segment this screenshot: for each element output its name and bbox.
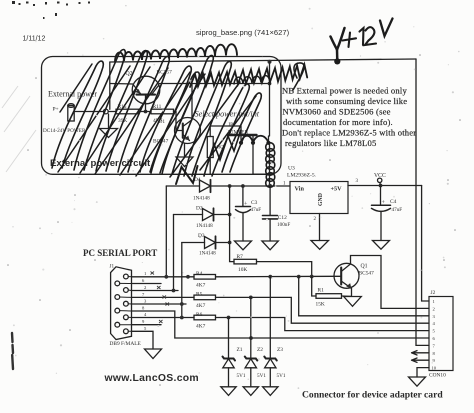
diode D2 1N4148	[174, 208, 230, 220]
resistor R5	[194, 295, 216, 300]
wire Q2 emitter rail	[111, 83, 134, 86]
faint scan streaks left margin	[2, 86, 36, 172]
svg-text:47uF: 47uF	[251, 207, 262, 213]
node Z3 tap dot	[268, 275, 272, 279]
svg-text:1N4148: 1N4148	[196, 223, 213, 229]
svg-text:4K7: 4K7	[196, 283, 206, 289]
svg-text:P+: P+	[53, 107, 59, 113]
node +12V junction dot	[334, 58, 340, 64]
svg-text:U3: U3	[288, 166, 295, 172]
ground below Z1	[221, 387, 236, 396]
wire node to R15	[108, 111, 116, 113]
pen scribble small loops near zigzag start	[293, 63, 304, 90]
node top rail to jumper junction dot	[268, 60, 272, 64]
serial row pin3 to D3 riser	[132, 303, 187, 305]
node external power open-circle junction	[103, 109, 108, 114]
wire R12 bottom to box bottom rail	[209, 158, 211, 175]
node C3 tap dot	[241, 184, 245, 188]
transistor Q2 BC557	[132, 76, 160, 111]
wire R11 to Q3 base	[174, 112, 183, 131]
svg-text:with some consuming device lik: with some consuming device like	[286, 96, 407, 106]
svg-text:R5: R5	[196, 292, 203, 298]
capacitor C4 47uF	[372, 186, 391, 241]
node J2 pin3 branch dot	[297, 275, 301, 279]
svg-text:1N4148: 1N4148	[199, 251, 216, 257]
op-amp U1 regulator U3 LM2936Z-5 box	[290, 182, 348, 214]
svg-text:5V1: 5V1	[277, 373, 286, 379]
svg-text:J1: J1	[110, 264, 115, 270]
pen scribble long diagonal strokes	[58, 64, 256, 177]
serial row pin9 stub	[132, 324, 162, 326]
serial row pin8 to ground rail	[132, 311, 430, 338]
P+ power jack	[68, 104, 104, 121]
wire R12 top to jumper pin1	[210, 126, 241, 137]
node D4 cathode bus dot	[228, 184, 232, 188]
node D2 cathode dot	[228, 213, 232, 217]
wire diode cathode bus down to R7	[230, 186, 234, 262]
wire J2 pin9 no-connect arrow	[412, 358, 430, 362]
node pin3/D3 dot	[180, 302, 184, 306]
svg-text:10K: 10K	[238, 267, 247, 273]
transistor Q1 BC547	[334, 256, 429, 309]
ground below C3	[235, 241, 252, 250]
svg-text:BC547: BC547	[359, 271, 375, 277]
svg-text:C4: C4	[390, 199, 397, 205]
svg-text:regulators like LM78L05: regulators like LM78L05	[285, 138, 376, 148]
serial row pin5 to ground	[132, 331, 154, 349]
pen scribble arcs over jumper pins	[241, 136, 269, 143]
wire R5 to J2 pin4 branch	[216, 297, 430, 323]
resistor R1	[312, 277, 352, 299]
node VCC tap dot	[379, 184, 383, 188]
ground below DB9	[145, 349, 162, 359]
node Z1 tap dot	[227, 316, 231, 320]
serial row pin2 to D2 riser	[132, 290, 179, 292]
zener Z3 5V1	[264, 277, 277, 387]
node R4 left dot	[186, 275, 190, 279]
svg-text:R1: R1	[318, 288, 325, 294]
node R6 left/D3 dot	[180, 316, 184, 320]
jumper pins	[241, 136, 269, 143]
node C12 tap dot	[268, 184, 272, 188]
wire R6 to J2 pin5 branch	[216, 318, 430, 331]
node R7/R1 junction dot	[310, 275, 314, 279]
svg-text:Q1: Q1	[361, 264, 368, 270]
ground below J2 pin10	[409, 377, 426, 386]
wire serial D4 anode riser	[165, 186, 167, 277]
resistor R4	[194, 275, 216, 280]
svg-text:GND: GND	[318, 193, 324, 206]
svg-text:+5V: +5V	[331, 186, 343, 193]
wire +5V drop to J2 pin1	[422, 186, 429, 302]
node Z2 rail crossing dot	[249, 336, 253, 340]
svg-text:1/11/12: 1/11/12	[23, 36, 46, 43]
node D3 cathode dot	[228, 241, 232, 245]
wire R7 to Q1 base node	[257, 262, 312, 277]
connector J2 CON10 body	[429, 297, 453, 371]
wire J2 pin10 to ground	[417, 368, 429, 377]
connector J1 DB9 body	[111, 267, 132, 340]
wire D2 anode riser	[173, 215, 175, 291]
capacitor C12 100nF	[263, 186, 278, 241]
svg-text:47uF: 47uF	[392, 207, 403, 213]
svg-text:PC SERIAL PORT: PC SERIAL PORT	[83, 248, 157, 258]
pen scribble N mark over title	[176, 166, 198, 184]
note NB external power	[282, 86, 416, 149]
svg-text:D3: D3	[198, 233, 205, 239]
scan speckles top-left	[12, 1, 90, 19]
node pin1/D4 riser dot	[164, 275, 168, 279]
scan mark left edge	[12, 333, 13, 369]
svg-text:D2: D2	[196, 206, 203, 212]
transistor Q3 BC547	[175, 84, 201, 158]
wire jumper center pin to regulator input rail	[252, 143, 254, 174]
pen scribble large cursive loops	[52, 50, 261, 176]
pen scribble scallop row along top rail	[115, 44, 237, 61]
wire R4 to Q1 base	[216, 275, 335, 278]
node Q2 base junction dot	[144, 110, 148, 114]
svg-text:4K7: 4K7	[196, 303, 206, 309]
diode D3 1N4148	[182, 236, 230, 248]
pen scribble coil over regulator feed	[266, 143, 275, 188]
ground below Z2	[243, 387, 258, 396]
ground below Q3 emitter	[176, 157, 193, 167]
svg-text:VCC: VCC	[374, 173, 386, 179]
pen scribble wave bumps	[234, 76, 270, 84]
svg-text:NB External power is needed on: NB External power is needed only	[282, 86, 408, 96]
svg-text:documentation for more info).: documentation for more info).	[283, 117, 393, 127]
svg-text:Z3: Z3	[277, 347, 283, 353]
resistor R6	[194, 315, 216, 320]
svg-text:Connector for device adapter c: Connector for device adapter card	[302, 390, 443, 401]
pen scribble W mark near jumper	[207, 130, 241, 166]
wire jumper pin3 drop to Vin node	[269, 62, 271, 136]
resistor R15	[116, 109, 139, 114]
zener Z2 5V1	[245, 297, 257, 386]
svg-text:10: 10	[432, 366, 437, 371]
svg-text:CON10: CON10	[429, 373, 446, 379]
resistor R12 vertical	[207, 137, 213, 158]
wire U3 output +5V rail	[348, 185, 422, 187]
svg-text:1N4148: 1N4148	[193, 196, 210, 202]
svg-text:5V1: 5V1	[257, 373, 266, 379]
svg-text:Z2: Z2	[257, 347, 263, 353]
diode D4 1N4148	[166, 180, 290, 192]
wire J2 pin8 no-connect arrow	[412, 351, 430, 355]
ground below U3	[311, 241, 329, 250]
ground below Q1 emitter	[344, 297, 362, 307]
pen scribble zigzag row	[190, 65, 307, 88]
wire R4 row to J2 pin3	[299, 277, 429, 316]
ground below P+ node	[100, 114, 118, 138]
svg-text:Vin: Vin	[295, 186, 305, 193]
wire main rail below box to Vin	[253, 173, 270, 175]
ground below Z3	[263, 387, 278, 396]
wire jumper pin3 down to Vin junction	[269, 143, 271, 186]
J2 pin numbers	[432, 299, 437, 371]
svg-text:siprog_base.png (741×627): siprog_base.png (741×627)	[196, 28, 290, 37]
ground below C4	[373, 241, 390, 250]
wire +12V top rail	[110, 59, 416, 62]
pen scribble extra loops	[151, 72, 199, 173]
svg-text:C3: C3	[251, 200, 258, 206]
wire U3 GND pin down	[319, 214, 321, 241]
svg-text:LM2936Z-5: LM2936Z-5	[287, 173, 315, 179]
wire R15 to R11	[139, 111, 152, 113]
svg-text:J2: J2	[431, 290, 436, 296]
wire end x marks	[151, 272, 170, 324]
resistor R7	[234, 259, 257, 264]
svg-text:R6: R6	[196, 312, 203, 318]
wire left drop from top rail to P+ node	[109, 62, 111, 109]
serial row pin7 to R5	[132, 296, 195, 298]
serial pin numbers	[142, 271, 147, 331]
wire Q2 collector rail	[160, 83, 270, 85]
svg-text:C12: C12	[278, 215, 287, 221]
svg-text:NVM3060 and SDE2506 (see: NVM3060 and SDE2506 (see	[283, 107, 391, 117]
node pin2/D2 dot	[172, 289, 176, 293]
capacitor C3 47uF	[236, 186, 251, 241]
serial row pin4 to R6	[132, 317, 195, 319]
handwritten +12V annotation	[331, 19, 393, 62]
svg-text:Z1: Z1	[237, 347, 243, 353]
zener Z1 5V1	[223, 318, 236, 387]
ground below C12	[262, 241, 278, 250]
svg-text:DB9 F/MALE: DB9 F/MALE	[110, 341, 142, 347]
power VCC symbol	[378, 178, 382, 185]
wire DB9 pin leads	[120, 277, 132, 332]
wire D3 anode riser	[181, 243, 183, 318]
serial row pin1 to R4	[132, 276, 195, 278]
node Q2 collector to jumper drop dot	[268, 82, 272, 86]
svg-text:R7: R7	[237, 254, 244, 260]
serial row pin6 stub	[132, 283, 162, 285]
svg-text:5V1: 5V1	[237, 373, 246, 379]
svg-text:R4: R4	[196, 271, 203, 277]
jumper JP2 bar	[228, 134, 257, 136]
node Z2 tap dot	[249, 296, 253, 300]
wire +12V frame drop to J2 pin7	[416, 59, 429, 345]
svg-text:100nF: 100nF	[277, 222, 290, 228]
svg-text:4K7: 4K7	[196, 324, 206, 330]
external power circuit enclosure box	[42, 57, 282, 175]
svg-text:www.LancOS.com: www.LancOS.com	[104, 373, 199, 384]
svg-text:15K: 15K	[316, 302, 325, 308]
svg-text:Don't replace LM2936Z-5 with o: Don't replace LM2936Z-5 with other	[282, 128, 416, 138]
resistor R11	[151, 109, 174, 114]
